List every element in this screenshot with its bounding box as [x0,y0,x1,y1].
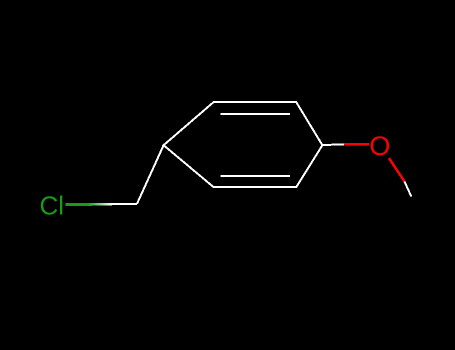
bond O-CH3 (red half near O) [389,158,405,181]
benzene ring outline [164,102,323,187]
svg-text:O: O [369,131,390,161]
bond Cl-CH2 (white part) [112,203,137,205]
svg-text:Cl: Cl [40,190,65,220]
double bond inner line top [221,113,291,115]
bond O-CH3 (white half near CH3) [405,182,412,197]
bond C4-O (white half near ring) [322,143,344,146]
bond C4-O (red half near O) [344,143,369,146]
double bond inner line bottom [221,175,291,177]
bond Cl-CH2 (white half near CH2) [88,203,112,206]
bond CH2-C1 ring [137,145,164,204]
bond Cl-CH2 (green half near Cl) [65,203,92,206]
